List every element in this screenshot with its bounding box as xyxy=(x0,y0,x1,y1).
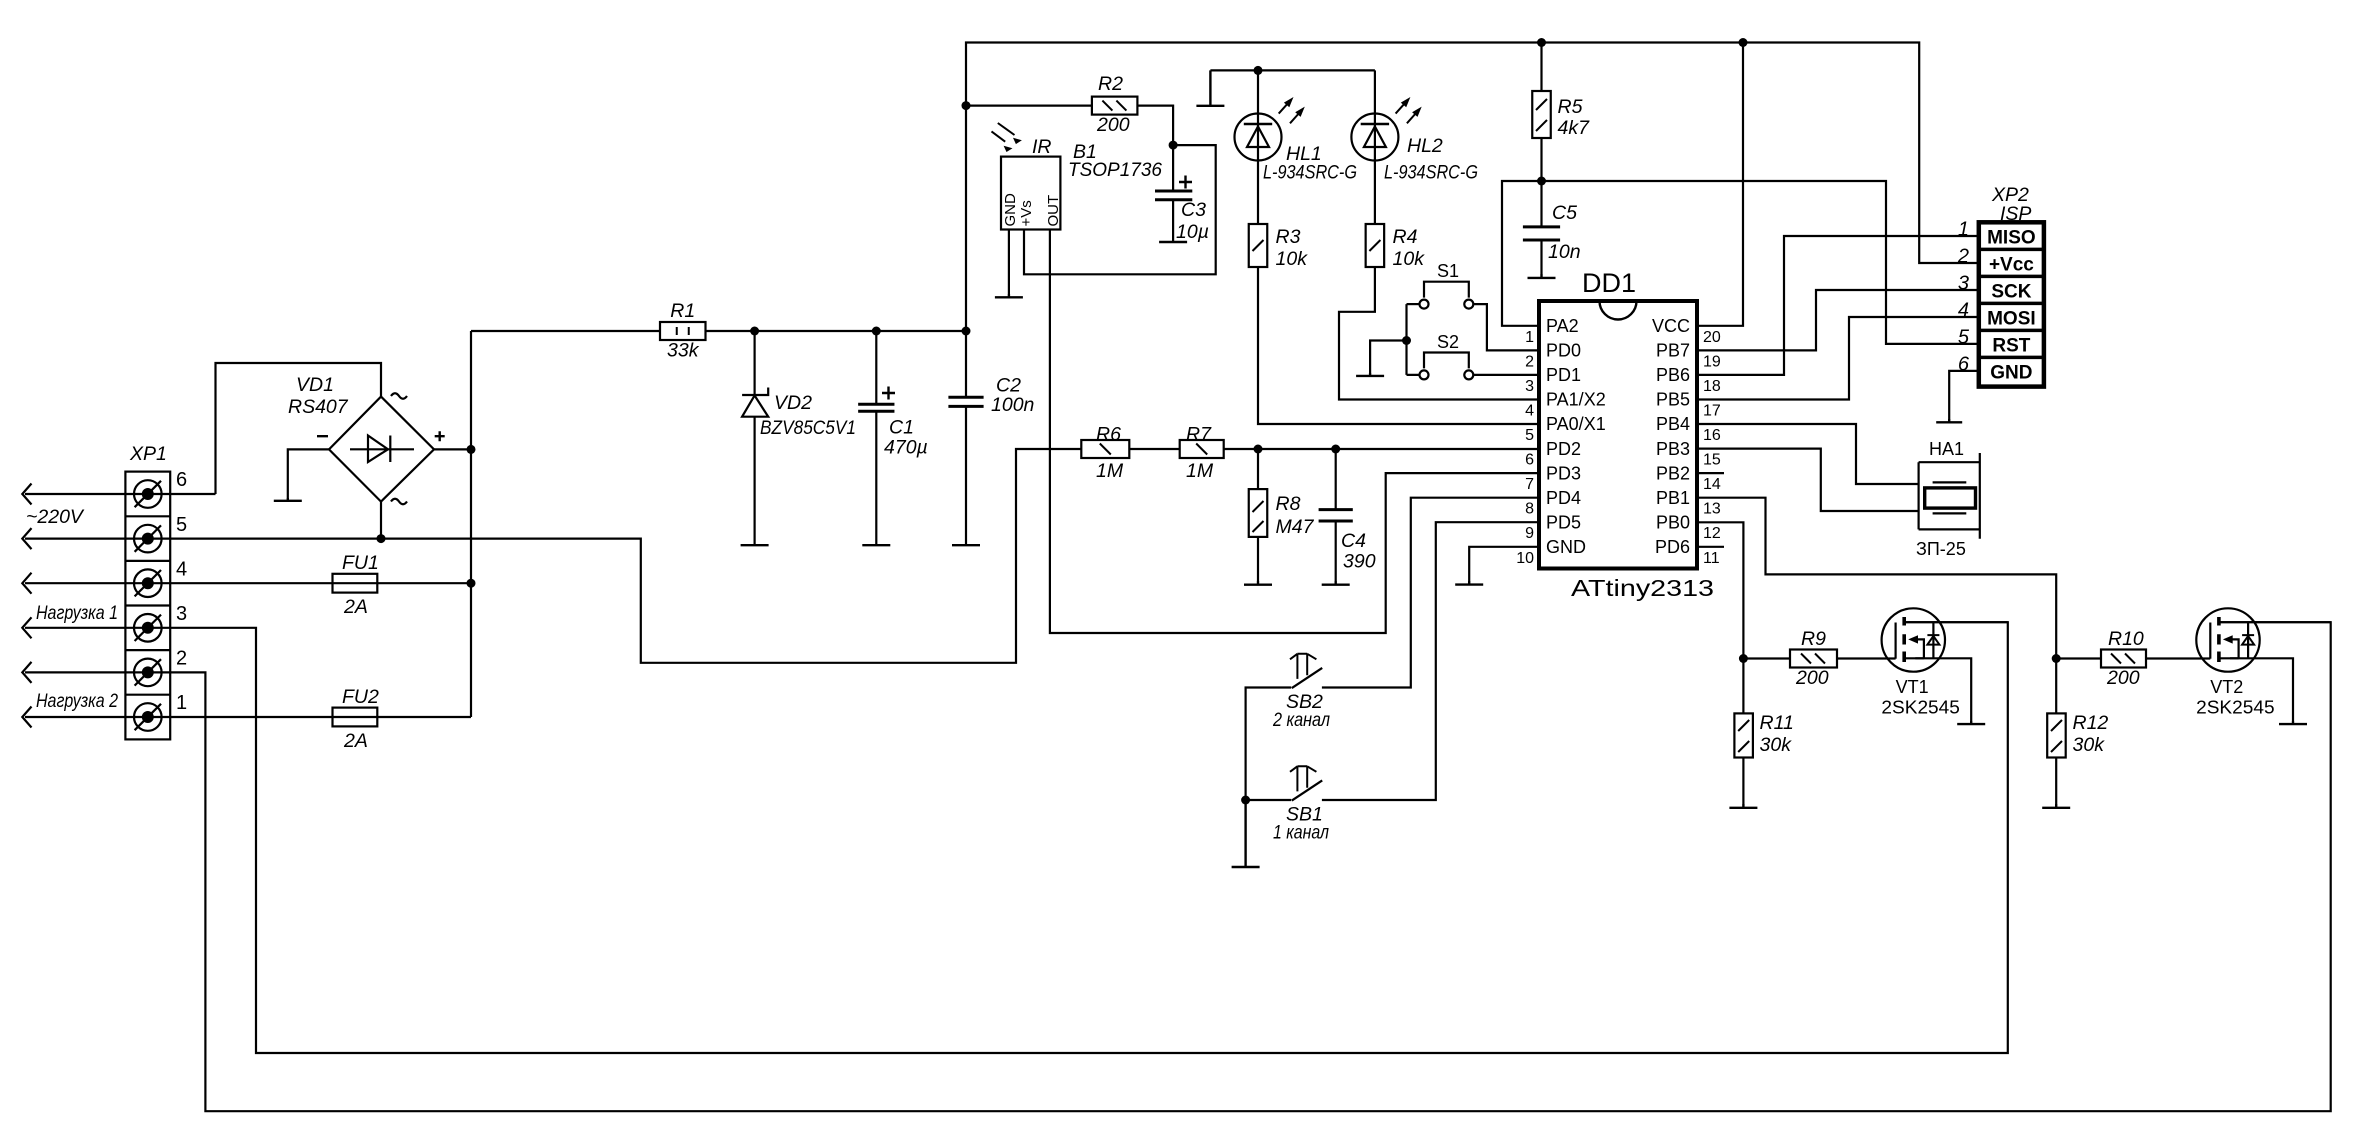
wire XP1 pin2 row to VT2 drain xyxy=(25,622,2331,1111)
svg-text:2SK2545: 2SK2545 xyxy=(2196,698,2275,718)
svg-text:PB1: PB1 xyxy=(1656,488,1690,508)
wire HL2 branch xyxy=(1374,70,1376,224)
wire C3 stub xyxy=(1172,145,1174,242)
svg-text:+Vcc: +Vcc xyxy=(1989,255,2034,276)
resistor R4 xyxy=(1366,224,1426,270)
resistor R8 xyxy=(1249,489,1315,538)
svg-text:3: 3 xyxy=(1525,378,1534,395)
capacitor C2 xyxy=(948,375,1034,417)
svg-text:R4: R4 xyxy=(1393,226,1418,248)
svg-text:200: 200 xyxy=(1795,667,1829,689)
wire R2 feed xyxy=(966,106,1173,146)
svg-text:HL2: HL2 xyxy=(1407,135,1443,157)
connector XP1 xyxy=(125,443,187,739)
svg-text:10n: 10n xyxy=(1548,241,1581,263)
ground C2 xyxy=(952,544,980,546)
ground B1 GND xyxy=(995,294,1023,297)
fuse FU1 xyxy=(333,552,379,618)
svg-text:R6: R6 xyxy=(1096,424,1121,446)
svg-text:DD1: DD1 xyxy=(1582,268,1636,298)
wire VT2 drain link xyxy=(2219,621,2331,623)
svg-text:1: 1 xyxy=(1525,329,1534,346)
svg-text:R11: R11 xyxy=(1760,712,1794,734)
svg-text:PA2: PA2 xyxy=(1546,316,1579,336)
svg-text:8: 8 xyxy=(1525,501,1534,518)
ground C1 xyxy=(862,544,890,546)
ground SB common xyxy=(1232,800,1260,867)
wire B1 GND pin xyxy=(1008,230,1010,295)
junction node xyxy=(1241,796,1250,805)
svg-text:10: 10 xyxy=(1516,550,1534,567)
wire HL1 branch xyxy=(1257,70,1259,224)
junction node xyxy=(2052,654,2061,663)
wire VT2 source xyxy=(2230,658,2293,721)
wire PB0 to channel1 gate node xyxy=(1697,522,1743,658)
capacitor C1 xyxy=(858,387,928,459)
svg-text:L-934SRC-G: L-934SRC-G xyxy=(1263,162,1357,184)
svg-text:30k: 30k xyxy=(2073,734,2106,756)
ground bridge minus xyxy=(274,498,302,501)
svg-text:13: 13 xyxy=(1703,501,1721,518)
svg-text:PA1/X2: PA1/X2 xyxy=(1546,390,1606,410)
wire XP1 pin3 row to VT1 drain xyxy=(25,622,2008,1053)
svg-text:PD2: PD2 xyxy=(1546,439,1581,459)
ground C4 xyxy=(1322,581,1350,585)
wire bridge AC2 stub xyxy=(380,502,382,539)
svg-text:1: 1 xyxy=(176,692,187,714)
wire B1 OUT to PD3 xyxy=(1050,230,1539,634)
stub PD6 xyxy=(1697,546,1724,548)
LED HL2 xyxy=(1351,97,1478,184)
svg-text:6: 6 xyxy=(1958,353,1970,375)
junction node xyxy=(1739,38,1748,47)
wire S2 left xyxy=(1407,304,1420,375)
wire XP1 pin6 to bridge AC1 xyxy=(25,363,381,494)
junction node xyxy=(962,327,971,336)
wire VT1 source xyxy=(1915,658,1971,721)
svg-text:PD0: PD0 xyxy=(1546,341,1581,361)
svg-text:15: 15 xyxy=(1703,452,1721,469)
svg-text:VD1: VD1 xyxy=(296,374,334,396)
svg-text:IR: IR xyxy=(1032,136,1052,158)
wire C5 stub xyxy=(1540,181,1542,274)
svg-text:5: 5 xyxy=(1525,427,1534,444)
svg-text:7: 7 xyxy=(1525,476,1534,493)
svg-text:PB6: PB6 xyxy=(1656,365,1690,385)
svg-text:BZV85C5V1: BZV85C5V1 xyxy=(760,417,856,439)
wire GND pin10 drop xyxy=(1469,547,1539,581)
svg-text:GND: GND xyxy=(1546,537,1586,557)
svg-text:30k: 30k xyxy=(1760,734,1793,756)
wire C4 stub xyxy=(1335,449,1337,581)
wire S1 right to PD0 xyxy=(1473,304,1539,350)
svg-text:R8: R8 xyxy=(1276,493,1301,515)
svg-text:R9: R9 xyxy=(1801,628,1826,650)
svg-text:~220V: ~220V xyxy=(26,506,85,528)
wire PD5 to SB1 xyxy=(1322,522,1539,800)
zener diode VD2 xyxy=(742,331,856,545)
svg-text:6: 6 xyxy=(176,469,187,491)
svg-text:GND: GND xyxy=(1990,363,2032,384)
svg-text:2A: 2A xyxy=(343,730,368,752)
svg-text:5: 5 xyxy=(176,514,187,536)
svg-text:FU1: FU1 xyxy=(342,552,379,574)
svg-text:200: 200 xyxy=(2106,667,2140,689)
wire R10 feed xyxy=(2056,657,2101,659)
svg-text:C1: C1 xyxy=(889,417,914,439)
wire SB1 left to node xyxy=(1246,799,1292,801)
svg-text:9: 9 xyxy=(1525,525,1534,542)
resistor R5 xyxy=(1532,91,1590,139)
junction node xyxy=(1537,177,1546,186)
junction node xyxy=(467,445,476,454)
wire R11 stub xyxy=(1742,659,1744,805)
wire R9 to VT1 gate xyxy=(1837,657,1896,659)
wire XP1 pin5 row / AC2 to R6 sense xyxy=(25,449,1081,663)
svg-text:R1: R1 xyxy=(670,300,695,322)
svg-text:ЗП-25: ЗП-25 xyxy=(1916,539,1966,559)
svg-text:PB7: PB7 xyxy=(1656,341,1690,361)
svg-text:390: 390 xyxy=(1343,551,1376,573)
wire R9 feed xyxy=(1743,657,1790,659)
wire R8 stub xyxy=(1257,449,1259,581)
svg-text:PD3: PD3 xyxy=(1546,463,1581,483)
wire PD4 to SB2 xyxy=(1322,498,1539,688)
svg-text:3: 3 xyxy=(176,603,187,625)
svg-text:PD5: PD5 xyxy=(1546,512,1581,532)
svg-text:C3: C3 xyxy=(1181,199,1206,221)
svg-text:Нагрузка 2: Нагрузка 2 xyxy=(36,690,118,712)
svg-text:PA0/X1: PA0/X1 xyxy=(1546,414,1606,434)
resistor R7 xyxy=(1180,424,1224,483)
svg-text:16: 16 xyxy=(1703,427,1721,444)
arrows external lines XP1 xyxy=(22,484,31,728)
ground R12 xyxy=(2042,804,2070,808)
wire DC plus bus xyxy=(470,331,472,717)
svg-text:ATtiny2313: ATtiny2313 xyxy=(1571,575,1714,601)
fuse FU2 xyxy=(333,686,379,752)
IR receiver B1 TSOP1736 xyxy=(992,123,1163,230)
svg-text:R10: R10 xyxy=(2108,628,2144,650)
junction node xyxy=(1254,66,1263,75)
svg-text:R3: R3 xyxy=(1276,226,1301,248)
svg-text:4: 4 xyxy=(1958,300,1969,322)
junction node xyxy=(962,101,971,110)
resistor R12 xyxy=(2047,712,2108,758)
svg-text:18: 18 xyxy=(1703,378,1721,395)
svg-text:VT2: VT2 xyxy=(2210,677,2243,697)
ground R11 xyxy=(1729,804,1757,808)
wire XP1 pin1 row through FU2 xyxy=(25,716,471,718)
svg-text:5: 5 xyxy=(1958,326,1970,348)
wire R3 to PA0/X1 xyxy=(1258,267,1539,424)
wire PB3 to HA1 xyxy=(1697,449,1919,511)
svg-text:R5: R5 xyxy=(1558,96,1583,118)
svg-text:HA1: HA1 xyxy=(1929,439,1964,459)
svg-text:470µ: 470µ xyxy=(884,437,928,459)
svg-text:12: 12 xyxy=(1703,525,1721,542)
svg-text:VCC: VCC xyxy=(1652,316,1690,336)
wire R5 drop xyxy=(1540,43,1542,182)
resistor R6 xyxy=(1081,424,1129,483)
svg-text:R12: R12 xyxy=(2073,712,2109,734)
wire PB1 to channel2 gate node xyxy=(1697,498,2056,659)
wire S ground stub xyxy=(1370,341,1406,374)
wire C2 stub xyxy=(965,331,967,545)
svg-text:ISP: ISP xyxy=(2000,203,2031,225)
svg-text:S2: S2 xyxy=(1437,332,1459,352)
wire VT1 drain link xyxy=(1904,621,2008,623)
wire C1 stub xyxy=(875,331,877,545)
wire R4 to PA1/X2 xyxy=(1339,267,1539,400)
svg-text:4k7: 4k7 xyxy=(1558,117,1591,139)
svg-text:GND: GND xyxy=(1002,193,1019,227)
transistor VT1 xyxy=(1881,608,1960,717)
pushbutton SB1 xyxy=(1273,766,1329,843)
resistor R10 xyxy=(2101,628,2146,689)
svg-text:19: 19 xyxy=(1703,353,1721,370)
junction node xyxy=(1739,654,1748,663)
resistor R2 xyxy=(1092,73,1138,136)
junction node xyxy=(377,534,386,543)
svg-text:4: 4 xyxy=(176,558,187,580)
svg-text:4: 4 xyxy=(1525,403,1534,420)
svg-text:R2: R2 xyxy=(1098,73,1123,95)
wire LED ground rail xyxy=(1210,69,1375,71)
svg-text:RST: RST xyxy=(1992,336,2030,357)
wire PB6 to MISO xyxy=(1697,236,1979,375)
ground C3 xyxy=(1159,241,1187,243)
junction node xyxy=(1331,445,1340,454)
svg-text:2: 2 xyxy=(176,648,187,670)
wire V+ rail xyxy=(966,43,1979,332)
svg-text:10k: 10k xyxy=(1276,248,1309,270)
wire R12 stub xyxy=(2055,659,2057,805)
svg-text:PD6: PD6 xyxy=(1655,537,1690,557)
ground VT2 source xyxy=(2279,721,2307,724)
svg-text:S1: S1 xyxy=(1437,261,1459,281)
svg-text:2: 2 xyxy=(1957,246,1969,268)
svg-text:MOSI: MOSI xyxy=(1987,309,2036,330)
wire R7 to PD2 xyxy=(1224,448,1539,450)
junction node xyxy=(1402,336,1411,345)
svg-text:C4: C4 xyxy=(1341,530,1366,552)
junction node xyxy=(1254,445,1263,454)
wire SB2 left to node xyxy=(1246,688,1292,801)
resistor R1 xyxy=(660,300,706,362)
IC DD1 ATtiny2313 xyxy=(1516,268,1721,601)
transistor VT2 xyxy=(2196,608,2275,717)
svg-text:PB3: PB3 xyxy=(1656,439,1690,459)
pushbutton SB2 xyxy=(1272,654,1330,731)
svg-text:PB5: PB5 xyxy=(1656,390,1690,410)
resistor R9 xyxy=(1790,628,1837,689)
junction node xyxy=(1537,38,1546,47)
wire R1 row to node xyxy=(471,330,966,332)
resistor R3 xyxy=(1249,224,1308,270)
svg-text:R7: R7 xyxy=(1186,424,1212,446)
wire PB4 to HA1 xyxy=(1697,424,1919,484)
wire S2 right to PD1 xyxy=(1473,374,1539,376)
stub PB2 xyxy=(1697,472,1724,474)
connector XP2 ISP xyxy=(1957,184,2044,387)
ground XP2 GND xyxy=(1936,419,1962,422)
ground R8 xyxy=(1244,581,1272,585)
svg-text:1M: 1M xyxy=(1186,460,1214,482)
wire R10 to VT2 gate xyxy=(2146,657,2210,659)
svg-text:20: 20 xyxy=(1703,329,1721,346)
svg-text:OUT: OUT xyxy=(1045,195,1062,227)
LED HL1 xyxy=(1235,97,1358,184)
svg-text:VT1: VT1 xyxy=(1896,677,1929,697)
svg-text:L-934SRC-G: L-934SRC-G xyxy=(1384,162,1478,184)
svg-text:2: 2 xyxy=(1525,353,1534,370)
ground S1 S2 common xyxy=(1356,373,1384,376)
svg-text:17: 17 xyxy=(1703,403,1721,420)
svg-text:C5: C5 xyxy=(1552,202,1577,224)
svg-text:2A: 2A xyxy=(343,596,368,618)
ground DD1 GND xyxy=(1455,581,1483,585)
svg-text:RS407: RS407 xyxy=(288,396,349,418)
svg-text:PD1: PD1 xyxy=(1546,365,1581,385)
wire reset line PA2 to RST xyxy=(1502,181,1979,344)
wire C3 +Vs loop xyxy=(1024,145,1216,274)
svg-text:1: 1 xyxy=(1958,219,1969,241)
svg-text:10k: 10k xyxy=(1393,248,1426,270)
svg-text:2 канал: 2 канал xyxy=(1272,709,1330,731)
junction node xyxy=(1169,141,1178,150)
svg-text:11: 11 xyxy=(1703,550,1720,567)
button S2 xyxy=(1420,332,1474,379)
wire PB7 to SCK xyxy=(1697,290,1979,350)
wire XP1 pin4 row through FU1 xyxy=(25,582,471,584)
svg-text:MISO: MISO xyxy=(1987,228,2036,249)
wire XP2 GND stub xyxy=(1949,371,1979,419)
junction node xyxy=(750,327,759,336)
svg-text:VD2: VD2 xyxy=(774,392,812,414)
wire VCC pin20 to rail xyxy=(1697,43,1743,326)
wire S1 left xyxy=(1407,303,1420,305)
svg-text:33k: 33k xyxy=(667,340,700,362)
svg-text:2SK2545: 2SK2545 xyxy=(1881,698,1960,718)
wire R6 R7 link xyxy=(1129,448,1179,450)
wire bridge minus to ground xyxy=(288,449,329,498)
buzzer HA1 xyxy=(1916,439,1980,559)
wire PB5 to MOSI xyxy=(1697,317,1979,400)
ground VD2 xyxy=(741,544,769,546)
svg-text:FU2: FU2 xyxy=(342,686,379,708)
svg-text:14: 14 xyxy=(1703,476,1721,493)
ground C5 xyxy=(1528,274,1556,278)
svg-text:TSOP1736: TSOP1736 xyxy=(1068,159,1162,181)
svg-text:10µ: 10µ xyxy=(1176,221,1209,243)
svg-text:Нагрузка 1: Нагрузка 1 xyxy=(36,602,118,624)
ground LED rail xyxy=(1196,70,1224,105)
bridge rectifier VD1 xyxy=(288,374,445,504)
svg-text:1M: 1M xyxy=(1096,460,1124,482)
svg-text:+Vs: +Vs xyxy=(1018,200,1035,226)
svg-text:SCK: SCK xyxy=(1991,282,2031,303)
svg-text:100n: 100n xyxy=(991,394,1034,416)
ground VT1 source xyxy=(1957,721,1985,724)
svg-text:XP1: XP1 xyxy=(129,443,167,465)
resistor R11 xyxy=(1734,712,1793,758)
svg-text:1 канал: 1 канал xyxy=(1273,821,1329,843)
svg-text:6: 6 xyxy=(1525,452,1534,469)
junction node xyxy=(467,579,476,588)
junction node xyxy=(872,327,881,336)
svg-text:M47: M47 xyxy=(1276,516,1315,538)
svg-text:PD4: PD4 xyxy=(1546,488,1581,508)
wire bridge plus to bus xyxy=(434,448,471,450)
button S1 xyxy=(1420,261,1474,309)
svg-text:3: 3 xyxy=(1958,273,1969,295)
svg-text:PB4: PB4 xyxy=(1656,414,1690,434)
svg-text:PB2: PB2 xyxy=(1656,463,1690,483)
svg-text:PB0: PB0 xyxy=(1656,512,1690,532)
svg-text:200: 200 xyxy=(1096,114,1130,136)
